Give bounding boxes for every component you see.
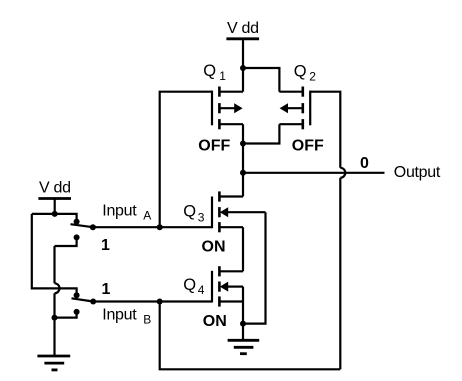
wire: right rail to Q2 gate (hops over output wire) [310, 92, 345, 370]
svg-text:B: B [143, 313, 151, 327]
wire: Vdd feed to switch B throws [32, 214, 77, 293]
node: Input A junction [157, 224, 163, 230]
label Q2 [294, 63, 317, 84]
node: Input B junction [157, 299, 163, 305]
svg-text:A: A [143, 209, 151, 223]
svg-text:Q: Q [183, 202, 196, 220]
label Q4 [183, 276, 205, 297]
switch B upper throw contact (logic 1) [74, 292, 80, 298]
switch A upper throw contact (logic 1) [74, 219, 80, 225]
svg-text:Q: Q [294, 63, 307, 81]
svg-text:Input: Input [102, 307, 137, 324]
ground (centre, below Q4) [228, 324, 260, 354]
wire: Q1 drain down the centre rail to Q3 drain [242, 124, 244, 196]
label Input A [102, 203, 151, 223]
node: switch B pole [90, 299, 96, 305]
label Input B [102, 307, 151, 327]
svg-text:4: 4 [198, 283, 205, 297]
svg-text:V dd: V dd [39, 180, 71, 197]
svg-text:1: 1 [101, 237, 110, 254]
node: output junction [240, 170, 246, 176]
wire: Q3 bulk rail down to ground node [243, 212, 266, 323]
switch B lever [72, 298, 94, 301]
wire: Q4 bulk/source down to ground node [242, 287, 244, 324]
transistor Q4 (NMOS) [212, 266, 243, 306]
svg-text:Q: Q [183, 276, 196, 294]
node: Vdd feed junction (switch A) [52, 211, 58, 217]
svg-text:OFF: OFF [198, 137, 230, 154]
ground (left, below switches) [37, 318, 70, 370]
wire: Input A up to Q1 gate [160, 92, 212, 228]
switch B lower throw contact (logic 0) [55, 309, 80, 318]
node: ground rail junction [52, 315, 58, 321]
svg-text:ON: ON [202, 239, 226, 256]
svg-text:1: 1 [219, 69, 226, 83]
svg-text:1: 1 [102, 281, 111, 298]
wire: Vdd node to Q1 source [242, 68, 244, 92]
svg-text:OFF: OFF [292, 137, 324, 154]
wire: Q3 source down to Q4 drain [242, 227, 244, 271]
wire: Input B (switch B pole to Q4 gate) [93, 300, 212, 302]
transistor Q3 (NMOS) [212, 191, 266, 232]
wire: Input A (switch A pole to Q3 gate) [93, 226, 212, 228]
wire: Input B down and along the bottom [160, 302, 341, 370]
svg-text:2: 2 [309, 70, 316, 84]
svg-text:ON: ON [203, 313, 227, 330]
transistor Q2 (PMOS) [279, 87, 310, 130]
svg-text:Input: Input [102, 203, 137, 220]
node: Q1/Q2 drain junction [240, 141, 246, 147]
node: switch A pole [90, 224, 96, 230]
label Q1 [203, 62, 226, 83]
power supply V dd (top) [226, 39, 259, 68]
svg-text:V dd: V dd [227, 20, 259, 37]
wire: output [243, 172, 385, 174]
transistor Q1 (PMOS) [212, 87, 243, 130]
wire: Vdd feed to switch A throws [32, 214, 77, 220]
wire: Vdd node to Q2 source [243, 68, 279, 92]
power supply V dd (left, switch pull-up) [38, 199, 71, 214]
node: Vdd junction [240, 65, 246, 71]
label Q3 [183, 202, 205, 224]
svg-text:3: 3 [198, 211, 205, 225]
wire: Q2 drain down to output rail [243, 124, 279, 143]
wire: switch ground rail (hops over switch B feed) [55, 246, 60, 318]
svg-text:Output: Output [394, 164, 441, 181]
svg-text:Q: Q [203, 62, 216, 80]
switch A lever [71, 224, 93, 227]
svg-text:0: 0 [360, 155, 369, 172]
node: Q4 source/bulk ground junction [240, 321, 246, 327]
switch A lower throw contact (logic 0) [55, 234, 80, 246]
